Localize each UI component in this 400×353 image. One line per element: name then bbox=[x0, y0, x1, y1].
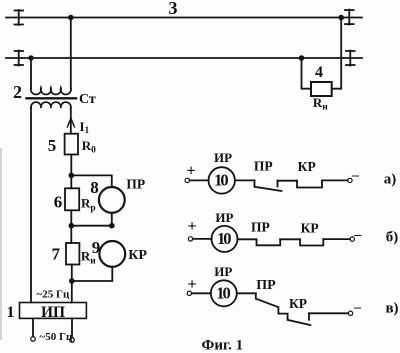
wire: KR bottom to node C bus bbox=[72, 267, 113, 281]
row a: wire KR to minus terminal bbox=[322, 179, 348, 181]
svg-text:10: 10 bbox=[216, 284, 230, 303]
row a: PR contact open blade bbox=[255, 180, 282, 191]
svg-text:Фиг. 1: Фиг. 1 bbox=[202, 337, 244, 353]
svg-text:–: – bbox=[351, 168, 360, 183]
wire: Ri bottom to node C bbox=[71, 265, 73, 303]
wire line 3 (top feeder) bbox=[6, 17, 362, 19]
wire: Rp bottom to node B bbox=[70, 210, 72, 243]
svg-text:+: + bbox=[187, 276, 196, 293]
svg-text:КР: КР bbox=[301, 220, 319, 235]
node junction dot on line3 right bbox=[338, 15, 344, 21]
svg-text:~25 Гц: ~25 Гц bbox=[37, 288, 70, 300]
svg-text:ИР: ИР bbox=[215, 210, 233, 225]
svg-text:ИР: ИР bbox=[214, 264, 232, 279]
node terminal I-bar mid-right bbox=[346, 51, 355, 66]
wire: primary left riser (line2 to transformer) bbox=[30, 58, 32, 89]
row b: wire terminal to IR bbox=[193, 238, 212, 240]
svg-text:5: 5 bbox=[48, 136, 57, 155]
transformer T secondary winding (4 humps) bbox=[31, 102, 71, 108]
row b: wire IR to PR contact bbox=[238, 238, 257, 240]
svg-text:+: + bbox=[186, 162, 195, 179]
svg-text:ПР: ПР bbox=[254, 158, 273, 173]
wire: R4 to line3 riser bbox=[332, 18, 342, 89]
node terminal I-bar top-right bbox=[345, 10, 354, 25]
svg-text:КР: КР bbox=[289, 296, 307, 311]
wire line 2 (second feeder) bbox=[6, 57, 362, 59]
node A junction dot bbox=[69, 173, 75, 179]
svg-text:ПР: ПР bbox=[126, 177, 145, 192]
wire: IP bottom left terminal lead bbox=[32, 318, 34, 336]
svg-text:3: 3 bbox=[169, 0, 178, 18]
row v: wire KR to minus terminal bbox=[309, 312, 348, 314]
wire: node A to PR device bbox=[71, 175, 112, 187]
row v: relay coil IR (10) bbox=[211, 280, 237, 306]
row v: PR fixed post and lower wire bbox=[278, 307, 287, 319]
row b: terminal - circle bbox=[350, 237, 354, 241]
wire: line2 drop to R4 bbox=[302, 58, 312, 89]
node junction dot on line3 left bbox=[68, 15, 74, 21]
row a: wire PR to KR bbox=[278, 180, 298, 182]
node C junction dot bbox=[69, 278, 75, 284]
svg-text:~50 Гц: ~50 Гц bbox=[40, 331, 73, 343]
row v: wire IR to PR contact bbox=[237, 292, 256, 294]
wire: PR bottom to node B bus bbox=[111, 213, 113, 226]
row a: wire terminal to IR bbox=[190, 179, 209, 181]
svg-text:в): в) bbox=[385, 300, 398, 316]
row a: relay coil IR (10) bbox=[209, 167, 235, 193]
row b: PR contact closed bridge bbox=[257, 239, 281, 245]
node terminal I-bar top-left bbox=[15, 10, 24, 25]
row v: terminal + circle bbox=[187, 291, 191, 295]
svg-text:КР: КР bbox=[298, 159, 316, 174]
svg-text:8: 8 bbox=[90, 178, 99, 197]
resistor R0 (5) bbox=[65, 134, 78, 155]
row a: KR contact closed bridge bbox=[297, 181, 322, 188]
svg-text:ПР: ПР bbox=[251, 220, 270, 235]
row b: KR contact closed bridge bbox=[300, 239, 323, 245]
resistor Rp (6) bbox=[65, 188, 79, 210]
row v: wire terminal to IR bbox=[192, 292, 211, 294]
svg-text:6: 6 bbox=[54, 193, 63, 212]
svg-text:4: 4 bbox=[315, 64, 323, 81]
node B junction dot left bbox=[69, 223, 75, 229]
svg-text:КР: КР bbox=[128, 248, 147, 263]
svg-text:–: – bbox=[353, 300, 362, 315]
svg-text:–: – bbox=[353, 227, 362, 242]
row v: KR contact open blade bbox=[288, 320, 311, 325]
svg-text:ИР: ИР bbox=[214, 150, 232, 165]
row a: terminal + circle bbox=[185, 178, 189, 182]
row v: PR contact open blade bbox=[256, 293, 278, 307]
svg-text:2: 2 bbox=[13, 82, 22, 102]
terminal circle bottom left bbox=[31, 337, 36, 342]
svg-text:10: 10 bbox=[217, 229, 231, 248]
svg-text:1: 1 bbox=[7, 304, 15, 321]
svg-text:10: 10 bbox=[214, 171, 228, 190]
wire: secondary left drop to power source bbox=[30, 108, 32, 303]
current arrow I1 bbox=[67, 118, 74, 127]
resistor Ri (7) bbox=[66, 243, 79, 265]
node junction dot on line2 left bbox=[28, 55, 33, 60]
power source IP box (1) bbox=[20, 303, 87, 319]
svg-text:9: 9 bbox=[92, 238, 101, 257]
wire: secondary right drop to R0 bbox=[70, 108, 72, 134]
row b: wire PR to KR bbox=[280, 238, 300, 240]
svg-text:ПР: ПР bbox=[256, 278, 276, 293]
device 8 PR circle bbox=[99, 187, 125, 213]
row v: KR fixed post bbox=[308, 313, 310, 320]
wire: primary right riser (line3 to transformer) bbox=[70, 18, 72, 89]
wire: IP bottom right terminal lead bbox=[71, 318, 73, 337]
node junction dot on line2 bbox=[299, 55, 305, 61]
row b: wire KR to minus terminal bbox=[323, 238, 350, 240]
wire: R0 to node A bbox=[70, 155, 72, 189]
row v: terminal - circle bbox=[348, 311, 352, 315]
node B junction dot right bbox=[109, 223, 115, 229]
svg-text:ИП: ИП bbox=[41, 304, 65, 321]
transformer T primary winding (4 loops) bbox=[31, 88, 71, 95]
row a: PR fixed post bbox=[277, 181, 279, 187]
row a: wire IR to PR contact bbox=[235, 179, 255, 181]
node terminal I-bar mid-left bbox=[15, 51, 24, 66]
row a: terminal - circle bbox=[348, 178, 352, 182]
svg-text:+: + bbox=[187, 218, 196, 235]
device 9 KR circle bbox=[99, 241, 125, 267]
row b: terminal + circle bbox=[188, 237, 192, 241]
scan artifact left edge bbox=[0, 148, 2, 340]
wire: node B bus bbox=[71, 225, 112, 227]
terminal circle bottom right bbox=[70, 338, 75, 343]
row b: relay coil IR (10) bbox=[212, 226, 238, 252]
resistor Rn (4) bbox=[311, 82, 332, 96]
svg-text:Ст: Ст bbox=[79, 92, 96, 107]
svg-text:б): б) bbox=[386, 230, 399, 246]
svg-text:а): а) bbox=[384, 171, 397, 187]
svg-text:7: 7 bbox=[52, 245, 61, 264]
transformer core Ct bbox=[27, 97, 77, 99]
